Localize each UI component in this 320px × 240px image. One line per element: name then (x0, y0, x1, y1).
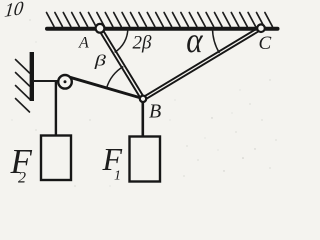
svg-text:2: 2 (18, 170, 26, 187)
rod AB (99, 28, 145, 100)
angle arc 2-beta at A (115, 29, 128, 53)
svg-text:A: A (78, 34, 89, 51)
rope from pulley to B (70, 77, 141, 98)
ceiling hatching (47, 13, 273, 27)
svg-text:β: β (94, 52, 107, 69)
wall (30, 52, 34, 101)
svg-text:10: 10 (3, 0, 24, 22)
weight F2 box (41, 136, 71, 181)
weight F1 box (130, 137, 161, 182)
svg-text:α: α (186, 21, 204, 60)
rod CB (142, 27, 262, 101)
ceiling beam (47, 27, 278, 31)
pivot C (257, 24, 265, 32)
angle arc alpha at C (212, 28, 219, 53)
pulley (58, 75, 72, 89)
angle arc beta at B (107, 67, 124, 89)
pulley bracket (33, 80, 59, 82)
pivot A (96, 24, 105, 33)
svg-text:B: B (149, 101, 161, 123)
wall hatching (16, 60, 30, 113)
rope from B down to weight F1 (142, 102, 145, 137)
svg-text:2β: 2β (133, 33, 153, 54)
pulley axle (64, 80, 67, 83)
svg-text:C: C (259, 33, 272, 54)
paper background (0, 0, 284, 192)
svg-text:1: 1 (114, 169, 121, 184)
pin joint B (140, 96, 146, 102)
rope from pulley down to weight F2 (55, 82, 57, 136)
